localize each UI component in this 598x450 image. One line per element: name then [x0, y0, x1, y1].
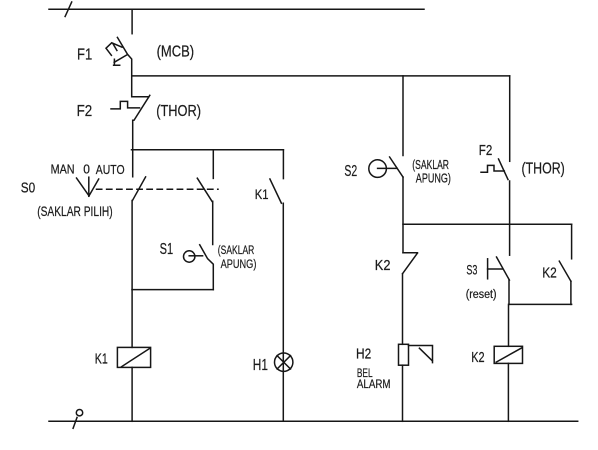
svg-text:S2: S2 [344, 163, 357, 180]
svg-text:K2: K2 [471, 350, 484, 366]
svg-text:S0: S0 [21, 181, 35, 197]
svg-text:K1: K1 [95, 352, 108, 368]
svg-text:H1: H1 [253, 357, 268, 374]
svg-text:MAN: MAN [51, 163, 75, 177]
svg-text:F2: F2 [479, 143, 493, 159]
svg-text:ALARM: ALARM [357, 379, 391, 391]
svg-text:H2: H2 [356, 346, 371, 363]
svg-text:S3: S3 [466, 263, 477, 278]
svg-text:(SAKLAR PILIH): (SAKLAR PILIH) [37, 204, 113, 219]
svg-text:(THOR): (THOR) [522, 161, 565, 178]
svg-text:APUNG): APUNG) [416, 171, 451, 186]
svg-text:K2: K2 [375, 258, 391, 274]
svg-text:APUNG): APUNG) [221, 257, 257, 271]
svg-text:K2: K2 [542, 266, 557, 282]
svg-text:F2: F2 [77, 103, 93, 120]
svg-text:F1: F1 [77, 46, 92, 63]
svg-text:(THOR): (THOR) [156, 103, 201, 120]
svg-text:(SAKLAR: (SAKLAR [218, 243, 255, 257]
svg-text:(MCB): (MCB) [157, 44, 195, 61]
svg-text:K1: K1 [255, 186, 269, 202]
svg-text:S1: S1 [160, 241, 174, 258]
svg-text:0: 0 [83, 162, 90, 176]
svg-text:(SAKLAR: (SAKLAR [412, 157, 449, 172]
svg-text:AUTO: AUTO [96, 163, 125, 177]
svg-text:(reset): (reset) [466, 289, 497, 301]
